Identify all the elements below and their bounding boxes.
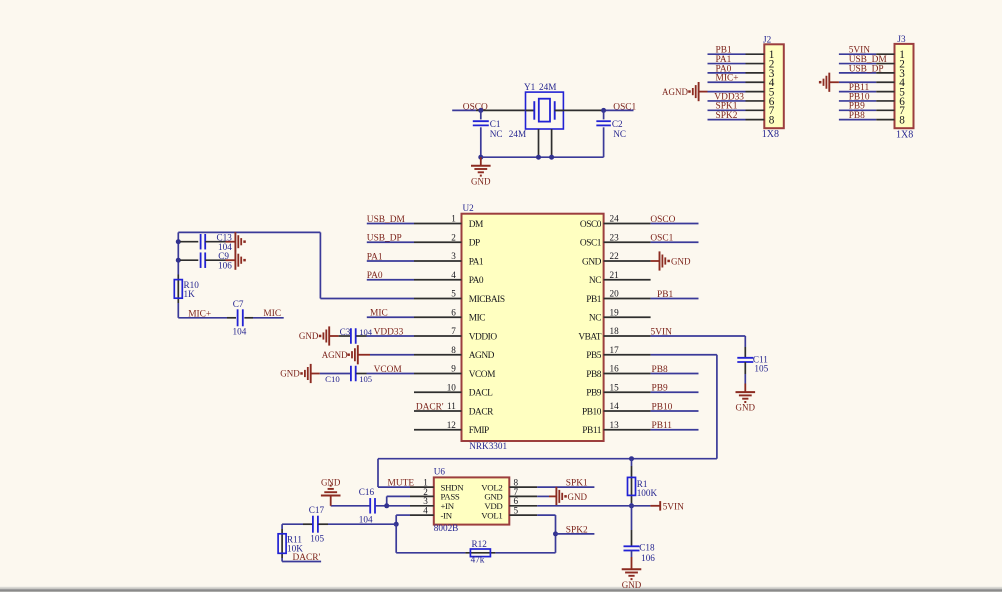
net label MIC at U2 pin 6 (367, 316, 414, 318)
pin 24 U2 OSC0 (604, 223, 651, 225)
svg-text:14: 14 (610, 401, 620, 411)
svg-text:NC: NC (613, 129, 626, 139)
svg-text:PB9: PB9 (586, 389, 602, 399)
wire -IN node down to R12 (395, 524, 397, 553)
capacitor C9 (180, 259, 198, 261)
svg-text:C7: C7 (233, 299, 244, 309)
svg-text:PB11: PB11 (582, 426, 601, 436)
svg-text:3: 3 (451, 251, 456, 261)
wire oscillator ground bus (481, 156, 604, 158)
svg-text:PA1: PA1 (469, 257, 484, 267)
svg-text:7: 7 (451, 326, 456, 336)
pin 20 U2 PB1 (604, 298, 651, 300)
wire U6 pin 2 to C16 node (386, 496, 388, 505)
pin 3 U6 +IN (410, 505, 434, 507)
svg-text:VCOM: VCOM (469, 370, 496, 380)
svg-text:47k: 47k (471, 555, 485, 565)
svg-text:MIC: MIC (263, 309, 281, 319)
svg-text:20: 20 (610, 289, 620, 299)
ground AGND at J3 pin 4 (829, 81, 839, 83)
capacitor C17 (282, 523, 303, 525)
svg-text:105: 105 (359, 374, 372, 384)
wire U6 pin 6 VDD to 5VIN node (537, 505, 631, 507)
wire U2 right row 2 (651, 241, 699, 243)
svg-text:17: 17 (610, 345, 620, 355)
svg-text:MIC: MIC (469, 314, 486, 324)
pin 4 U6 -IN (410, 514, 434, 516)
ground AGND at J2 pin 5 (699, 91, 708, 93)
svg-text:VDDIO: VDDIO (469, 332, 498, 342)
svg-text:OSCO: OSCO (650, 215, 675, 225)
wire U6 pin 4 to C17 node (396, 514, 410, 516)
svg-text:U2: U2 (463, 203, 475, 213)
svg-text:21: 21 (610, 270, 620, 280)
connector J2 (764, 44, 784, 128)
svg-text:R12: R12 (472, 539, 488, 549)
node C9 junction (176, 258, 181, 263)
svg-text:PB8: PB8 (652, 365, 668, 375)
wire U2 pin 4 (367, 279, 414, 281)
ground GND below C11 (744, 384, 746, 392)
pin 3 U2 PA1 (414, 260, 462, 262)
svg-text:DM: DM (469, 220, 484, 230)
wire net SPK2 (556, 533, 595, 535)
pin 19 U2 NC (604, 316, 651, 318)
svg-text:NC: NC (589, 314, 601, 324)
wire J2 pin 5 (708, 91, 746, 93)
svg-text:4: 4 (423, 506, 428, 516)
svg-text:PB1: PB1 (657, 290, 673, 300)
wire U2 right row 5 (651, 298, 699, 300)
svg-text:GND: GND (671, 256, 691, 266)
pin 5 U6 VOL1 (509, 514, 537, 516)
resistor R1 (631, 459, 633, 466)
ground GND below C18 (631, 557, 633, 569)
capacitor C13 (180, 241, 198, 243)
svg-text:-IN: -IN (441, 510, 453, 520)
window bottom edge strip (0, 587, 1002, 592)
svg-text:J3: J3 (897, 34, 906, 44)
wire OSC0 left (452, 109, 476, 111)
wire J3 pin 3 (839, 72, 876, 74)
svg-text:AGND: AGND (469, 351, 495, 361)
capacitor C1 (480, 110, 482, 119)
svg-text:SPK2: SPK2 (716, 111, 738, 121)
pin 7 U2 VDDIO (414, 335, 462, 337)
svg-text:DACR: DACR (469, 407, 494, 417)
svg-text:VCOM: VCOM (374, 365, 403, 375)
wire VDD33 to U2 pin 7 (367, 335, 415, 337)
svg-text:C2: C2 (612, 119, 623, 129)
svg-text:C1: C1 (490, 119, 501, 129)
svg-text:SPK1: SPK1 (566, 479, 588, 489)
node case pin right junction (549, 155, 554, 160)
capacitor C2 (603, 110, 605, 119)
node GND junction below C1 (478, 155, 483, 160)
svg-text:DACR': DACR' (416, 402, 444, 412)
wire J2 pin 8 (708, 119, 746, 121)
svg-text:24M: 24M (509, 129, 526, 139)
pin 21 U2 NC (604, 279, 651, 281)
svg-text:18: 18 (610, 326, 620, 336)
wire mic bias top (178, 231, 320, 233)
pin 9 U2 VCOM (414, 373, 462, 375)
svg-text:DP: DP (469, 239, 480, 249)
svg-text:12: 12 (447, 420, 457, 430)
svg-text:PB10: PB10 (582, 407, 602, 417)
capacitor C18 (631, 506, 633, 530)
ground GND above C16 (321, 495, 341, 497)
svg-text:19: 19 (610, 307, 620, 317)
svg-text:MIC+: MIC+ (716, 74, 739, 84)
svg-text:PB1: PB1 (586, 295, 602, 305)
svg-text:PB8: PB8 (849, 111, 865, 121)
svg-text:2: 2 (451, 232, 456, 242)
svg-text:GND: GND (299, 331, 319, 341)
svg-text:22: 22 (610, 251, 620, 261)
svg-text:1: 1 (451, 214, 456, 224)
pin 4 U2 PA0 (414, 279, 462, 281)
wire U2 pin 17 to amplifier rail (651, 354, 717, 356)
svg-text:USB_DM: USB_DM (367, 215, 406, 225)
ground AGND at U2 pin 8 (357, 345, 359, 364)
capacitor C16 (369, 498, 371, 514)
svg-text:NRK3301: NRK3301 (469, 441, 507, 451)
svg-text:SPK2: SPK2 (566, 525, 588, 535)
node +IN junction (384, 503, 389, 508)
capacitor C11 (744, 347, 746, 357)
svg-text:8: 8 (769, 115, 775, 127)
svg-text:DACR': DACR' (293, 553, 321, 563)
svg-text:105: 105 (754, 364, 768, 374)
svg-text:USB_DP: USB_DP (849, 64, 884, 74)
wire 5VIN from U2 pin 18 to C11 (651, 335, 746, 337)
svg-text:10K: 10K (287, 543, 303, 553)
svg-text:106: 106 (641, 553, 655, 563)
svg-text:GND: GND (321, 477, 341, 487)
node C13 junction (176, 239, 181, 244)
node SPK2 junction (553, 531, 558, 536)
wire MUTE to U6 pin 1 (377, 459, 379, 487)
svg-text:DACL: DACL (469, 389, 493, 399)
pin 1 U2 DM (414, 223, 462, 225)
svg-text:PB9: PB9 (652, 384, 668, 394)
svg-text:GND: GND (736, 402, 756, 412)
pin 14 U2 PB10 (604, 410, 651, 412)
svg-text:104: 104 (233, 327, 247, 337)
pin 10 U2 DACL (414, 391, 462, 393)
svg-text:PB10: PB10 (652, 402, 673, 412)
op-amp U6 8002B body (434, 477, 510, 524)
wire GND to C10 (320, 373, 351, 375)
wire U2 pin 3 (367, 260, 414, 262)
svg-text:8: 8 (899, 115, 905, 127)
resistor R11 (281, 524, 283, 529)
svg-text:VOL1: VOL1 (481, 510, 502, 520)
pin 15 U2 PB9 (604, 391, 651, 393)
pin 7 U6 GND (509, 495, 537, 497)
svg-text:MICBAIS: MICBAIS (469, 295, 505, 305)
wire U2 right row 1 (651, 223, 699, 225)
svg-text:C3: C3 (340, 327, 351, 337)
svg-text:NC: NC (490, 129, 503, 139)
power 5VIN bar (632, 505, 651, 507)
node OSC0 junction (478, 108, 483, 113)
wire mic bias left column (177, 232, 179, 274)
wire AGND to U2 pin 8 (370, 354, 414, 356)
wire MICBAIS to U2 pin 5 (320, 298, 414, 300)
capacitor C10 (350, 366, 352, 382)
svg-text:MIC+: MIC+ (188, 309, 211, 319)
wire J2 pin 2 (708, 63, 746, 65)
wire MIC right of C7 (253, 317, 284, 319)
pin 12 U2 FMIP (414, 429, 462, 431)
svg-text:PB8: PB8 (586, 370, 602, 380)
svg-text:C10: C10 (325, 374, 340, 384)
svg-text:NC: NC (589, 276, 601, 286)
node OSC1 junction (601, 108, 606, 113)
wire R11 to DACR' (281, 558, 283, 562)
svg-text:16: 16 (610, 364, 620, 374)
svg-text:PA1: PA1 (367, 252, 383, 262)
svg-text:1K: 1K (184, 289, 196, 299)
svg-text:24M: 24M (539, 82, 556, 92)
svg-text:J2: J2 (763, 35, 772, 45)
resistor R12 (465, 552, 495, 554)
wire crystal case pin left (538, 129, 540, 157)
svg-text:13: 13 (610, 420, 620, 430)
svg-text:5: 5 (451, 289, 456, 299)
svg-text:5VIN: 5VIN (663, 502, 685, 512)
resistor R10 (177, 275, 179, 304)
wire J3 pin 6 (839, 100, 876, 102)
svg-text:PA0: PA0 (367, 271, 383, 281)
svg-text:9: 9 (451, 364, 456, 374)
node VDD junction (629, 503, 634, 508)
wire C16 to U6 pin 3 (376, 505, 410, 507)
svg-text:C16: C16 (359, 487, 375, 497)
svg-text:15: 15 (610, 382, 620, 392)
svg-text:8002B: 8002B (434, 523, 459, 533)
svg-text:VBAT: VBAT (578, 332, 601, 342)
ground GND at C10 (310, 364, 312, 383)
wire R12 to VOL1 node (495, 552, 555, 554)
pin 11 U2 DACR (414, 410, 462, 412)
node -IN junction (394, 522, 399, 527)
wire U2 right row 11 (651, 410, 699, 412)
svg-text:MIC: MIC (370, 309, 388, 319)
wire J2 pin 4 (708, 81, 746, 83)
ground GND at U6 pin 7 (537, 495, 549, 497)
wire J2 pin 7 (708, 109, 746, 111)
svg-text:23: 23 (610, 232, 620, 242)
wire J3 pin 4 (839, 81, 876, 83)
pin 17 U2 PB5 (604, 354, 651, 356)
svg-text:GND: GND (471, 177, 491, 187)
node case pin left junction (536, 155, 541, 160)
wire crystal case pin right (551, 129, 553, 157)
pin 23 U2 OSC1 (604, 241, 651, 243)
wire U2 right row 10 (651, 391, 699, 393)
wire U2 right row 9 (651, 373, 699, 375)
wire OSC1 right (555, 109, 604, 111)
wire U6 pin 5 VOL1 (537, 514, 555, 516)
ground AGND at C13 (226, 241, 236, 243)
ground GND at U2 pin 22 (651, 260, 660, 262)
svg-text:OSC1: OSC1 (613, 103, 636, 113)
connector J3 (895, 44, 914, 128)
svg-text:MUTE: MUTE (388, 479, 415, 489)
wire J2 pin 6 (708, 100, 746, 102)
svg-text:11: 11 (447, 401, 456, 411)
svg-text:U6: U6 (434, 467, 446, 477)
svg-text:USB_DP: USB_DP (367, 234, 402, 244)
svg-text:OSC1: OSC1 (580, 239, 602, 249)
svg-text:PA0: PA0 (469, 276, 484, 286)
pin 8 U2 AGND (414, 354, 462, 356)
svg-text:Y1: Y1 (524, 82, 536, 92)
ground GND at C3 (328, 326, 330, 345)
svg-text:8: 8 (451, 345, 456, 355)
svg-text:PB5: PB5 (586, 351, 602, 361)
svg-text:AGND: AGND (662, 87, 688, 97)
pin 1 U6 SHDN (410, 486, 434, 488)
pin 16 U2 PB8 (604, 373, 651, 375)
wire net SPK1 from U6 pin 8 (537, 486, 594, 488)
svg-text:5: 5 (514, 506, 519, 516)
svg-text:10: 10 (447, 382, 457, 392)
wire J3 pin 8 (839, 119, 876, 121)
wire J2 pin 3 (708, 72, 746, 74)
svg-text:PB11: PB11 (652, 421, 673, 431)
svg-text:1X8: 1X8 (762, 129, 779, 140)
svg-text:C17: C17 (309, 505, 325, 515)
pin 18 U2 VBAT (604, 335, 651, 337)
svg-text:OSC0: OSC0 (580, 220, 602, 230)
svg-text:FMIP: FMIP (469, 426, 489, 436)
node rail junction at R1 (629, 456, 634, 461)
pin 5 U2 MICBAIS (414, 298, 462, 300)
crystal Y1 (526, 92, 564, 129)
svg-text:104: 104 (359, 514, 373, 524)
svg-text:GND: GND (622, 580, 642, 590)
svg-text:VDD33: VDD33 (374, 327, 404, 337)
pin 22 U2 GND (604, 260, 651, 262)
svg-text:105: 105 (310, 533, 324, 543)
pin 2 U6 PASS (410, 495, 434, 497)
capacitor C7 (227, 317, 236, 319)
pin 8 U6 VOL2 (509, 486, 537, 488)
svg-text:4: 4 (451, 270, 456, 280)
wire U2 right row 12 (651, 429, 699, 431)
wire J3 pin 2 (839, 63, 876, 65)
wire R10 to MIC+ (177, 303, 179, 318)
pin 13 U2 PB11 (604, 429, 651, 431)
svg-text:106: 106 (218, 260, 232, 270)
svg-text:6: 6 (451, 307, 456, 317)
svg-text:1X8: 1X8 (896, 130, 913, 141)
wire J3 pin 1 (839, 53, 876, 55)
op-amp U2 NRK3301 body (462, 214, 604, 441)
pin 2 U2 DP (414, 241, 462, 243)
svg-text:GND: GND (280, 369, 300, 379)
wire J3 pin 7 (839, 109, 876, 111)
svg-text:GND: GND (582, 257, 602, 267)
ground GND below C1 (480, 157, 482, 165)
svg-text:C9: C9 (218, 251, 229, 261)
svg-text:OSC1: OSC1 (650, 234, 673, 244)
svg-text:C18: C18 (639, 543, 655, 553)
svg-text:100K: 100K (637, 488, 658, 498)
svg-text:24: 24 (610, 214, 620, 224)
ground AGND at C9 (226, 259, 236, 261)
wire J2 pin 1 (708, 53, 746, 55)
capacitor C3 (339, 335, 351, 337)
svg-text:GND: GND (568, 492, 588, 502)
wire J3 pin 5 (839, 91, 876, 93)
wire VCOM to U2 pin 9 (367, 373, 415, 375)
pin 6 U6 VDD (509, 505, 537, 507)
svg-text:AGND: AGND (322, 350, 348, 360)
pin 6 U2 MIC (414, 316, 462, 318)
wire U2 pin 1 (367, 223, 414, 225)
wire U2 pin 2 (367, 241, 414, 243)
